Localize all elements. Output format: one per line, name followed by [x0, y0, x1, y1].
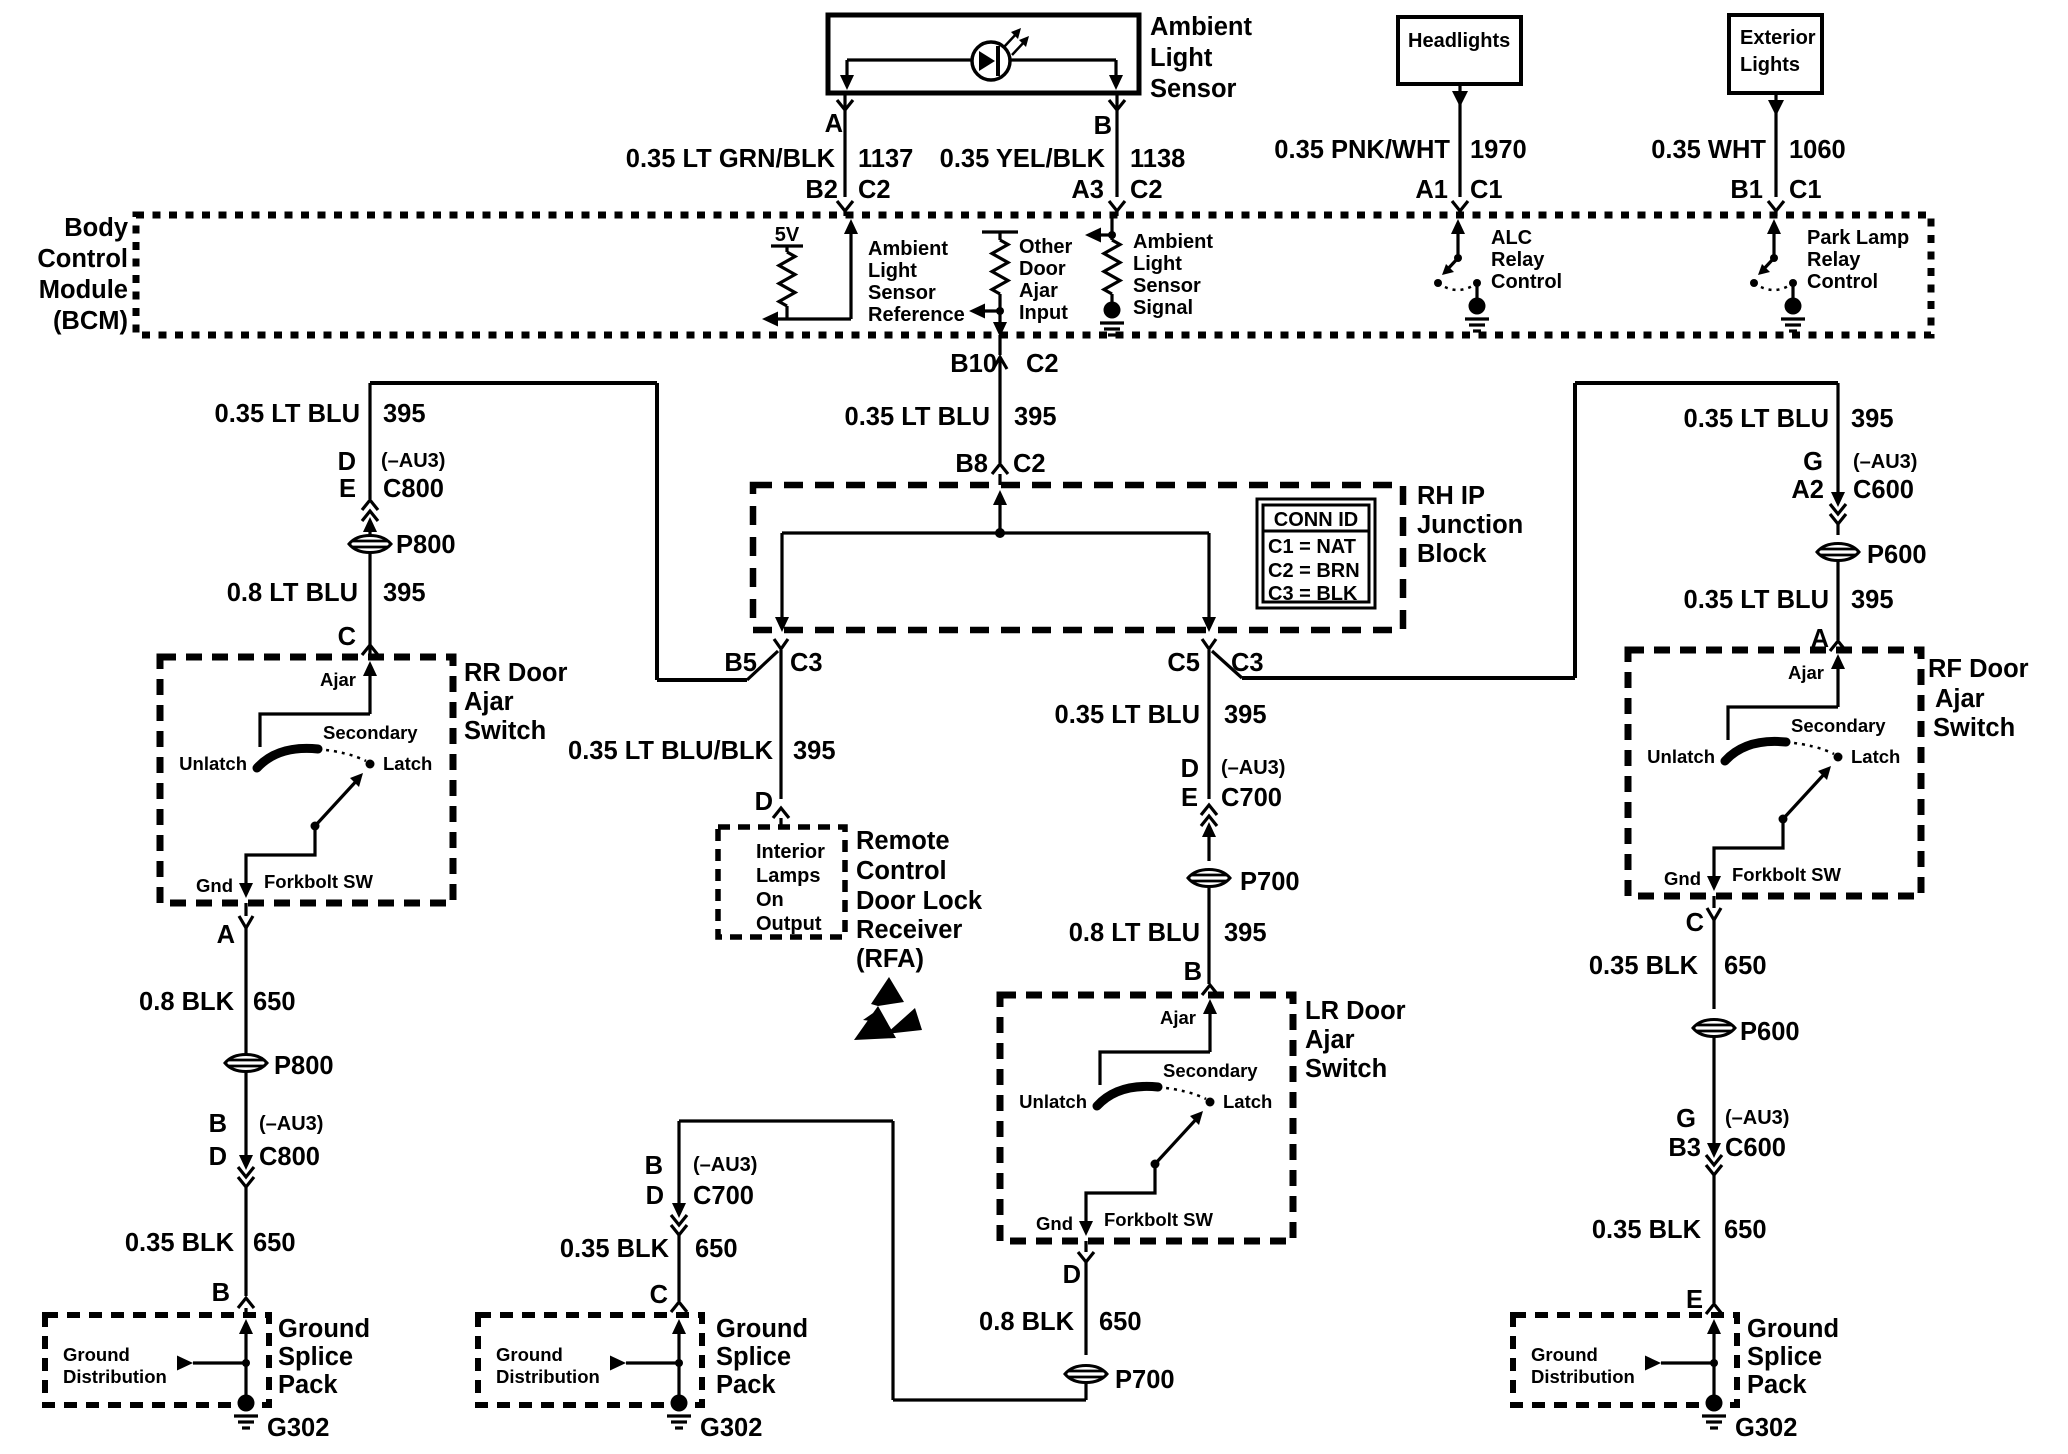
- svg-text:0.35 LT BLU: 0.35 LT BLU: [845, 403, 990, 431]
- svg-text:0.8 LT BLU: 0.8 LT BLU: [1069, 919, 1200, 947]
- svg-text:A2: A2: [1791, 476, 1824, 504]
- svg-text:B8: B8: [955, 450, 988, 478]
- svg-text:B: B: [1094, 112, 1112, 140]
- svg-text:C: C: [338, 623, 356, 651]
- svg-text:C3: C3: [790, 649, 823, 677]
- svg-text:Other: Other: [1019, 236, 1073, 258]
- svg-text:0.8 BLK: 0.8 BLK: [139, 988, 235, 1016]
- svg-text:On: On: [756, 889, 784, 911]
- svg-text:B3: B3: [1668, 1134, 1701, 1162]
- svg-text:0.35 LT BLU: 0.35 LT BLU: [1684, 586, 1829, 614]
- svg-text:C700: C700: [1221, 784, 1282, 812]
- svg-text:P800: P800: [274, 1052, 334, 1080]
- svg-text:Control: Control: [856, 857, 947, 885]
- svg-text:395: 395: [1224, 919, 1267, 947]
- svg-text:LR Door: LR Door: [1305, 997, 1406, 1025]
- svg-text:B: B: [212, 1279, 230, 1307]
- svg-text:C2 = BRN: C2 = BRN: [1268, 560, 1360, 582]
- svg-text:Junction: Junction: [1417, 511, 1523, 539]
- svg-text:0.35 BLK: 0.35 BLK: [1592, 1216, 1702, 1244]
- svg-text:Sensor: Sensor: [1133, 275, 1201, 297]
- svg-text:Interior: Interior: [756, 841, 825, 863]
- svg-text:P600: P600: [1740, 1018, 1800, 1046]
- svg-text:Pack: Pack: [1747, 1371, 1807, 1399]
- svg-text:Sensor: Sensor: [1150, 75, 1237, 103]
- svg-text:C3 = BLK: C3 = BLK: [1268, 583, 1358, 605]
- svg-text:C2: C2: [858, 176, 891, 204]
- svg-text:0.35 PNK/WHT: 0.35 PNK/WHT: [1274, 136, 1450, 164]
- svg-text:395: 395: [1224, 701, 1267, 729]
- svg-text:Relay: Relay: [1807, 249, 1861, 271]
- svg-text:Reference: Reference: [868, 304, 965, 326]
- svg-text:(–AU3): (–AU3): [1853, 451, 1917, 473]
- svg-text:P600: P600: [1867, 541, 1927, 569]
- svg-text:Pack: Pack: [716, 1371, 776, 1399]
- svg-text:650: 650: [1099, 1308, 1142, 1336]
- svg-text:Ajar: Ajar: [464, 688, 514, 716]
- svg-text:(–AU3): (–AU3): [381, 450, 445, 472]
- svg-text:Splice: Splice: [278, 1343, 353, 1371]
- svg-text:Signal: Signal: [1133, 297, 1193, 319]
- svg-text:Door: Door: [1019, 258, 1066, 280]
- svg-text:Ambient: Ambient: [1150, 13, 1253, 41]
- svg-text:650: 650: [1724, 952, 1767, 980]
- svg-text:D: D: [209, 1143, 227, 1171]
- svg-text:395: 395: [383, 400, 426, 428]
- svg-text:Light: Light: [1150, 44, 1213, 72]
- svg-text:Switch: Switch: [1305, 1055, 1387, 1083]
- svg-text:Switch: Switch: [1933, 714, 2015, 742]
- svg-text:D: D: [1063, 1261, 1081, 1289]
- svg-text:Exterior: Exterior: [1740, 27, 1816, 49]
- svg-text:A1: A1: [1415, 176, 1448, 204]
- svg-text:P700: P700: [1115, 1366, 1175, 1394]
- svg-text:0.8 LT BLU: 0.8 LT BLU: [227, 579, 358, 607]
- svg-text:P800: P800: [396, 531, 456, 559]
- svg-text:0.8 BLK: 0.8 BLK: [979, 1308, 1075, 1336]
- svg-text:D: D: [338, 448, 356, 476]
- svg-text:Remote: Remote: [856, 827, 950, 855]
- svg-text:Splice: Splice: [716, 1343, 791, 1371]
- svg-text:Relay: Relay: [1491, 249, 1545, 271]
- svg-text:D: D: [1181, 755, 1199, 783]
- svg-text:B: B: [1184, 958, 1202, 986]
- svg-text:E: E: [339, 475, 356, 503]
- svg-text:Ajar: Ajar: [1935, 685, 1985, 713]
- svg-text:Headlights: Headlights: [1408, 30, 1510, 52]
- svg-text:C1 = NAT: C1 = NAT: [1268, 536, 1356, 558]
- svg-text:395: 395: [1014, 403, 1057, 431]
- svg-text:Ground: Ground: [1747, 1315, 1839, 1343]
- svg-text:395: 395: [1851, 586, 1894, 614]
- svg-text:0.35 LT BLU: 0.35 LT BLU: [215, 400, 360, 428]
- svg-text:Sensor: Sensor: [868, 282, 936, 304]
- svg-text:Ground: Ground: [278, 1315, 370, 1343]
- svg-text:D: D: [755, 788, 773, 816]
- svg-text:0.35 BLK: 0.35 BLK: [560, 1235, 670, 1263]
- svg-text:1137: 1137: [858, 145, 913, 173]
- svg-text:395: 395: [793, 737, 836, 765]
- svg-text:Ambient: Ambient: [868, 238, 948, 260]
- svg-text:Ambient: Ambient: [1133, 231, 1213, 253]
- svg-text:C: C: [1686, 909, 1704, 937]
- svg-text:Control: Control: [1491, 271, 1562, 293]
- svg-text:0.35 LT GRN/BLK: 0.35 LT GRN/BLK: [626, 145, 836, 173]
- svg-text:C1: C1: [1470, 176, 1503, 204]
- svg-text:0.35 LT BLU: 0.35 LT BLU: [1055, 701, 1200, 729]
- svg-text:5V: 5V: [775, 224, 800, 246]
- svg-text:G: G: [1676, 1105, 1696, 1133]
- svg-text:C800: C800: [259, 1143, 320, 1171]
- svg-text:0.35 LT BLU: 0.35 LT BLU: [1684, 405, 1829, 433]
- svg-text:B: B: [209, 1110, 227, 1138]
- svg-text:P700: P700: [1240, 868, 1300, 896]
- svg-text:650: 650: [1724, 1216, 1767, 1244]
- svg-text:B: B: [645, 1152, 663, 1180]
- svg-text:ALC: ALC: [1491, 227, 1532, 249]
- svg-text:C5: C5: [1167, 649, 1200, 677]
- svg-text:C1: C1: [1789, 176, 1822, 204]
- svg-text:C600: C600: [1725, 1134, 1786, 1162]
- svg-text:C700: C700: [693, 1182, 754, 1210]
- svg-text:1970: 1970: [1470, 136, 1527, 164]
- svg-text:Splice: Splice: [1747, 1343, 1822, 1371]
- svg-text:0.35 YEL/BLK: 0.35 YEL/BLK: [940, 145, 1106, 173]
- svg-text:B1: B1: [1730, 176, 1763, 204]
- svg-text:Ajar: Ajar: [1305, 1026, 1355, 1054]
- svg-text:650: 650: [253, 988, 296, 1016]
- svg-text:Lamps: Lamps: [756, 865, 820, 887]
- svg-text:Module: Module: [39, 276, 128, 304]
- svg-text:1138: 1138: [1130, 145, 1185, 173]
- svg-text:A3: A3: [1071, 176, 1104, 204]
- svg-text:Input: Input: [1019, 302, 1068, 324]
- svg-text:Lights: Lights: [1740, 54, 1800, 76]
- svg-text:A: A: [217, 921, 235, 949]
- svg-text:Light: Light: [1133, 253, 1182, 275]
- svg-text:395: 395: [383, 579, 426, 607]
- svg-text:Body: Body: [64, 214, 129, 242]
- svg-text:650: 650: [253, 1229, 296, 1257]
- svg-text:(–AU3): (–AU3): [1221, 757, 1285, 779]
- svg-text:Control: Control: [1807, 271, 1878, 293]
- svg-text:0.35 BLK: 0.35 BLK: [1589, 952, 1699, 980]
- svg-text:E: E: [1181, 784, 1198, 812]
- svg-text:Switch: Switch: [464, 717, 546, 745]
- svg-text:Control: Control: [37, 245, 128, 273]
- svg-text:(–AU3): (–AU3): [693, 1154, 757, 1176]
- svg-text:0.35 WHT: 0.35 WHT: [1651, 136, 1766, 164]
- svg-text:Receiver: Receiver: [856, 916, 962, 944]
- svg-text:0.35 BLK: 0.35 BLK: [125, 1229, 235, 1257]
- svg-text:B2: B2: [805, 176, 838, 204]
- svg-text:RR Door: RR Door: [464, 659, 567, 687]
- svg-text:0.35 LT BLU/BLK: 0.35 LT BLU/BLK: [568, 737, 774, 765]
- svg-text:C800: C800: [383, 475, 444, 503]
- svg-text:C2: C2: [1013, 450, 1046, 478]
- svg-text:D: D: [646, 1182, 664, 1210]
- svg-text:C: C: [650, 1281, 668, 1309]
- svg-text:(–AU3): (–AU3): [1725, 1107, 1789, 1129]
- svg-text:Output: Output: [756, 913, 822, 935]
- svg-text:C2: C2: [1026, 350, 1059, 378]
- svg-text:RH IP: RH IP: [1417, 482, 1485, 510]
- svg-text:Pack: Pack: [278, 1371, 338, 1399]
- svg-text:650: 650: [695, 1235, 738, 1263]
- svg-text:1060: 1060: [1789, 136, 1846, 164]
- svg-text:Park Lamp: Park Lamp: [1807, 227, 1909, 249]
- svg-text:(BCM): (BCM): [53, 307, 128, 335]
- svg-text:B5: B5: [724, 649, 757, 677]
- svg-text:C2: C2: [1130, 176, 1163, 204]
- svg-text:Light: Light: [868, 260, 917, 282]
- svg-text:B10: B10: [950, 350, 997, 378]
- svg-text:Block: Block: [1417, 540, 1487, 568]
- svg-text:G: G: [1803, 448, 1823, 476]
- svg-text:Door Lock: Door Lock: [856, 887, 983, 915]
- svg-text:Ajar: Ajar: [1019, 280, 1058, 302]
- svg-text:E: E: [1686, 1286, 1703, 1314]
- svg-text:(–AU3): (–AU3): [259, 1113, 323, 1135]
- svg-text:CONN ID: CONN ID: [1274, 509, 1358, 531]
- svg-text:RF Door: RF Door: [1928, 655, 2029, 683]
- svg-text:C3: C3: [1231, 649, 1264, 677]
- svg-text:395: 395: [1851, 405, 1894, 433]
- svg-text:Ground: Ground: [716, 1315, 808, 1343]
- svg-text:(RFA): (RFA): [856, 945, 924, 973]
- svg-text:A: A: [825, 110, 843, 138]
- svg-text:C600: C600: [1853, 476, 1914, 504]
